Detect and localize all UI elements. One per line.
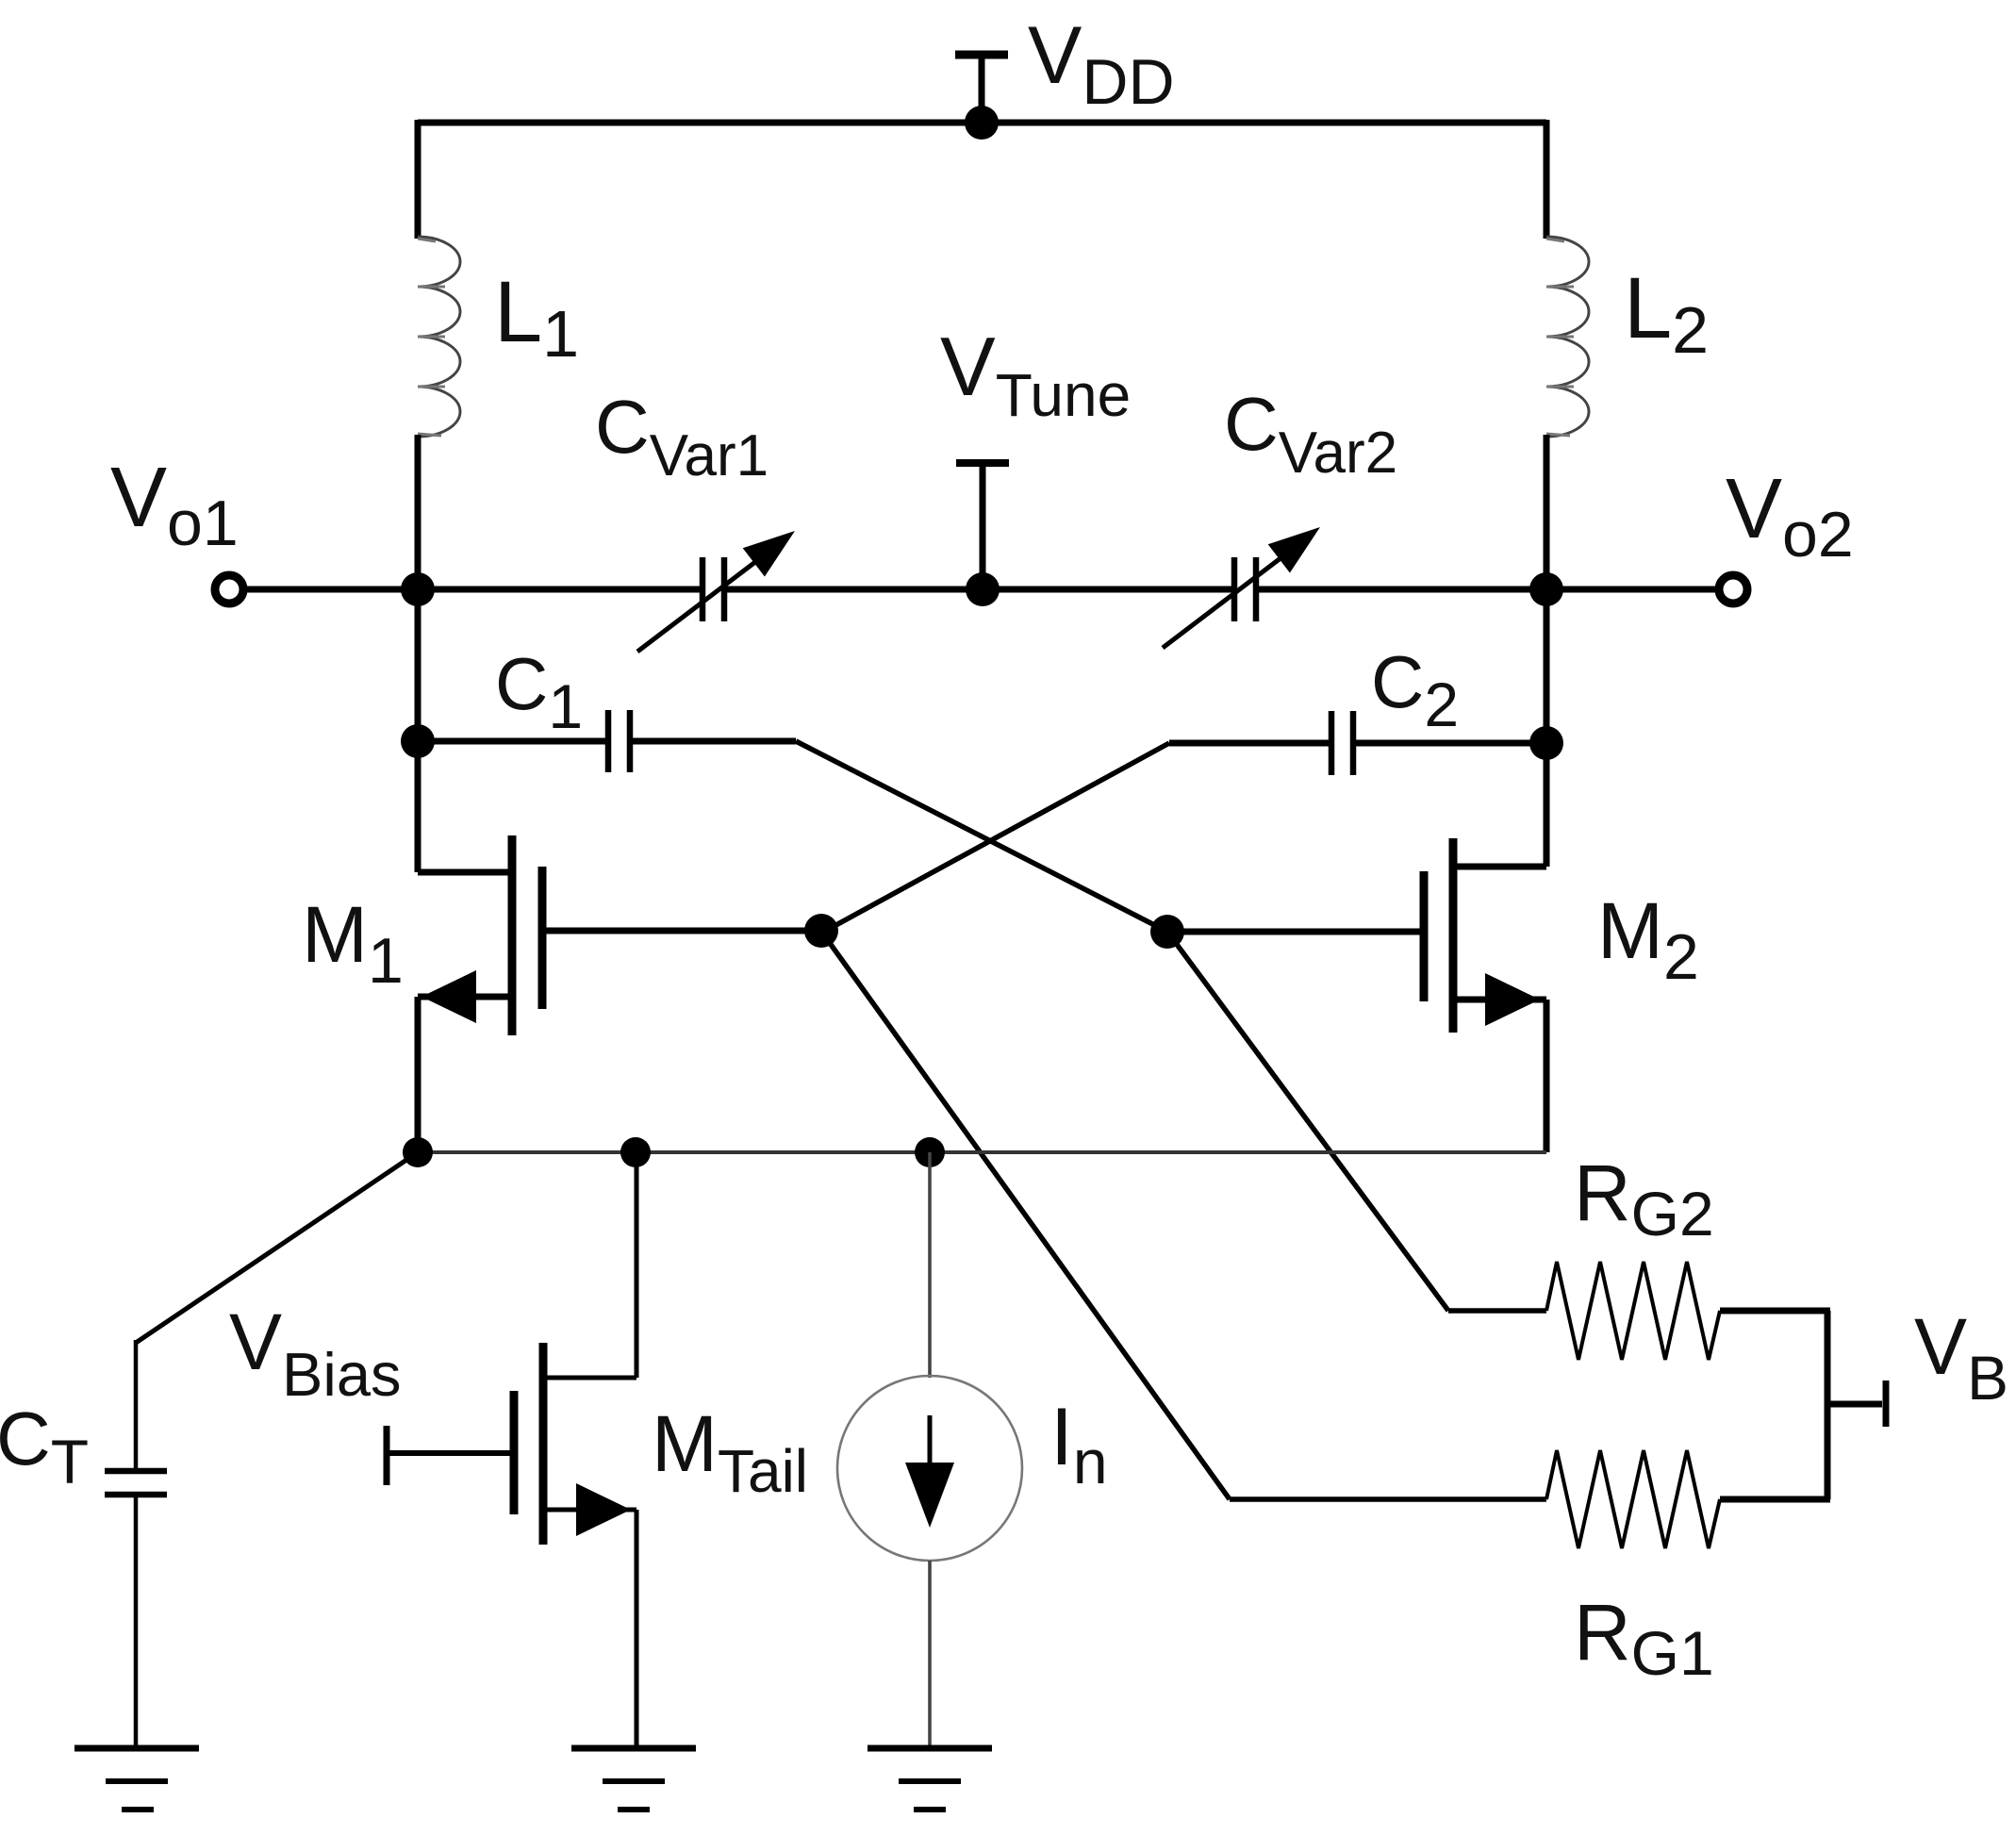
- wire RG1 right lead: [1720, 1496, 1830, 1503]
- node tail MTail dot: [620, 1137, 651, 1167]
- wire C2 to M1 gate diagonal: [822, 743, 1169, 933]
- wire RG2 right lead: [1720, 1308, 1830, 1314]
- VB supply symbol: [1827, 1380, 1886, 1427]
- wire M2 source down: [1544, 1000, 1550, 1152]
- wire C1 to M2 gate diagonal: [796, 741, 1167, 932]
- capacitor C1: [418, 710, 796, 772]
- VTune supply symbol: [956, 463, 1009, 589]
- transistor MTail: [387, 1343, 636, 1545]
- node C2 right dot: [1529, 726, 1563, 760]
- wire output rail segment A: [418, 587, 700, 593]
- node tail In dot: [915, 1137, 945, 1167]
- node C1 left dot: [401, 724, 435, 758]
- varactor CVar2: [1163, 527, 1320, 648]
- resistor RG2: [1546, 1262, 1720, 1360]
- wire Vo1 lead: [247, 587, 418, 593]
- wire right branch upper: [1544, 120, 1550, 239]
- capacitor C2: [1169, 711, 1546, 775]
- wire output rail segment B: [727, 587, 1231, 593]
- wire VB bus vertical: [1825, 1311, 1831, 1499]
- wire top VDD rail: [418, 120, 1546, 126]
- ground In: [868, 1748, 992, 1810]
- wire M2 gate to RG2 diagonal: [1167, 932, 1448, 1311]
- wire In bottom lead: [928, 1561, 932, 1748]
- current source In: [837, 1376, 1022, 1561]
- ground CT: [74, 1748, 199, 1810]
- terminal Vo1: [215, 575, 243, 603]
- ground MTail: [571, 1748, 696, 1810]
- transistor M1: [418, 835, 821, 1035]
- inductor L1: [418, 237, 460, 437]
- wire RG2 left lead: [1448, 1308, 1546, 1314]
- wire M1 gate to RG1 diagonal: [822, 933, 1230, 1499]
- VDD supply symbol: [955, 55, 1008, 123]
- wire left branch lower: [415, 435, 421, 872]
- wire MTail drain up: [635, 1152, 639, 1378]
- node M2 gate dot: [1150, 915, 1184, 949]
- node right rail Vo2 dot: [1529, 572, 1563, 606]
- wire M1 source down: [415, 997, 421, 1152]
- wire tail rail: [418, 1150, 1546, 1154]
- wire right branch lower: [1544, 435, 1550, 867]
- node left rail Vo1 dot: [401, 572, 435, 606]
- wire left branch upper: [415, 120, 421, 239]
- wire Vo2 lead: [1546, 587, 1716, 593]
- node VDD junction dot: [965, 106, 999, 140]
- wire CT bottom lead: [134, 1495, 139, 1748]
- resistor RG1: [1546, 1450, 1720, 1548]
- capacitor CT: [105, 1471, 167, 1495]
- wire RG1 left lead: [1230, 1496, 1546, 1502]
- wire tail to CT diagonal: [136, 1152, 418, 1343]
- terminal Vo2: [1719, 575, 1747, 603]
- wire In top lead: [928, 1152, 932, 1378]
- wire MTail source down: [635, 1510, 639, 1748]
- wire CT top lead: [134, 1340, 139, 1471]
- inductor L2: [1546, 237, 1589, 437]
- wire output rail segment C: [1259, 587, 1546, 593]
- node M1 gate dot: [804, 914, 838, 948]
- varactor CVar1: [637, 531, 795, 652]
- transistor M2: [1167, 838, 1546, 1033]
- node tail left dot: [403, 1137, 433, 1167]
- node VTune junction dot: [966, 572, 1000, 606]
